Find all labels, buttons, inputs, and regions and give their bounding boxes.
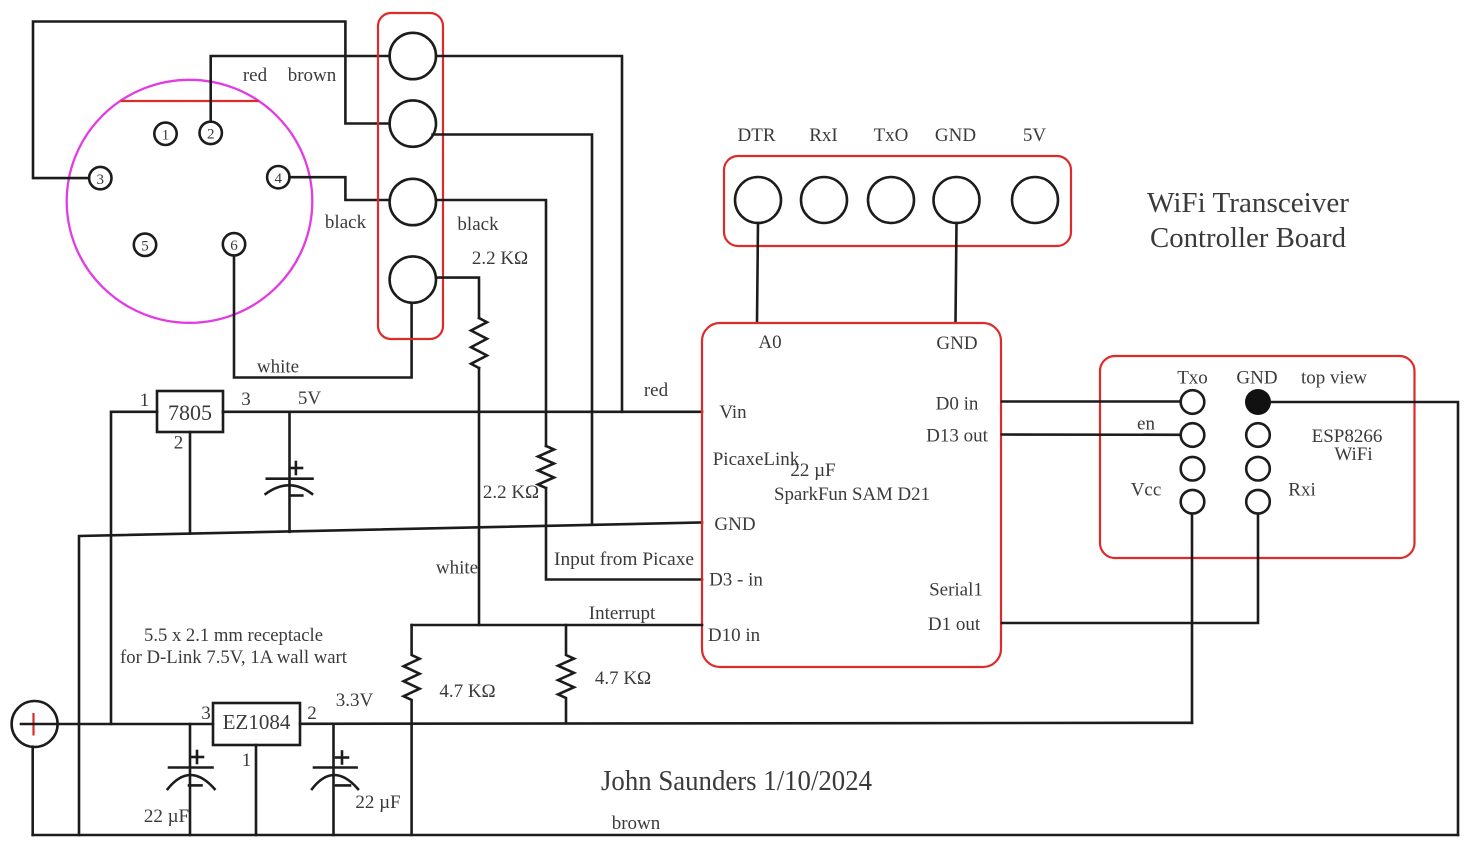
ESP8266 module U3 box [1100,356,1415,558]
svg-text:7805: 7805 [168,400,212,425]
capacitor C7 22uF output wire [332,724,335,835]
title WiFi Transceiver Controller Board [1147,187,1349,254]
DIN pin 1 [154,123,176,145]
connector J2 circle C4 [390,256,436,302]
wire interrupt line to D10 in [412,624,702,627]
capacitor C6 top plate [169,766,213,769]
svg-text:4.7 KΩ: 4.7 KΩ [439,681,495,702]
svg-text:3.3V: 3.3V [336,690,374,711]
svg-text:Serial1: Serial1 [929,580,983,601]
ESP pin Vcc [1181,490,1205,514]
svg-text:brown: brown [288,65,337,86]
capacitor C5 curved plate [266,485,313,494]
wire D13 out to en [1002,433,1181,436]
svg-text:WiFi: WiFi [1334,444,1372,465]
svg-text:Interrupt: Interrupt [589,603,656,624]
svg-text:GND: GND [936,333,977,354]
DIN pin 2 [200,122,222,144]
wire C1 to 5V rail [436,56,622,412]
capacitor C5 plus sign [290,462,302,474]
resistor R2 2.2 K zigzag [538,446,554,488]
capacitor C5 22uF on 5V rail wire [288,412,291,532]
resistor R3 4.7 K zigzag [404,625,420,835]
wire bottom ground rail [33,834,1458,837]
svg-text:2.2 KΩ: 2.2 KΩ [472,248,528,269]
capacitor C7 plus sign [336,752,348,764]
svg-text:D0 in: D0 in [936,394,979,415]
svg-text:GND: GND [1236,368,1277,389]
svg-text:Vcc: Vcc [1131,480,1162,501]
svg-text:5V: 5V [298,388,322,409]
svg-text:top view: top view [1301,368,1367,389]
svg-text:D1 out: D1 out [928,614,981,635]
connector J2 circle C1 [390,33,436,79]
svg-text:GND: GND [714,514,755,535]
svg-text:5: 5 [141,239,149,255]
wire receptacle to EZ1084 pin3 [21,723,213,726]
FTDI pin DTR [735,177,781,223]
ESP pin row2 right [1246,423,1270,447]
DIN pin 4 [267,166,289,188]
svg-text:for D-Link 7.5V, 1A wall wart: for D-Link 7.5V, 1A wall wart [120,647,348,668]
FTDI header J3 body [724,156,1071,246]
capacitor C7 minus sign [336,784,350,787]
svg-text:DTR: DTR [738,125,776,146]
svg-text:Vin: Vin [719,402,747,423]
wire header GND to SAM GND [956,223,957,322]
ESP pin en [1181,423,1205,447]
receptacle center pin red bar [32,713,34,736]
svg-text:1: 1 [242,750,252,771]
svg-text:black: black [457,214,499,235]
svg-text:D10 in: D10 in [708,625,761,646]
svg-text:4.7 KΩ: 4.7 KΩ [595,668,651,689]
svg-text:black: black [325,212,367,233]
connector J2 circle C3 [390,179,436,225]
svg-text:Txo: Txo [1177,368,1208,389]
wire 7805 pin2 to ground [189,432,192,534]
capacitor C6 plus sign [191,751,203,763]
svg-text:3: 3 [97,172,105,188]
wire 7805 input pin1 [111,412,157,724]
svg-text:red: red [243,65,268,86]
svg-text:GND: GND [935,125,976,146]
svg-text:RxI: RxI [809,125,838,146]
svg-text:4: 4 [275,171,283,187]
capacitor C5 top plate [267,477,313,480]
capacitor C6 22uF input wire [189,724,192,835]
connector J2 circle C2 [390,100,436,146]
regulator U4 EZ1084 box [213,703,300,745]
svg-text:Controller Board: Controller Board [1150,222,1346,254]
capacitor C6 minus sign [189,784,202,787]
wire DTR to A0 [757,223,758,322]
FTDI pin 5V [1012,177,1058,223]
FTDI pin RxI [801,177,847,223]
wire R2 to D3-in [546,488,702,580]
DIN pin 3 [89,167,111,189]
svg-text:red: red [644,380,669,401]
svg-text:1: 1 [140,390,150,411]
power receptacle symbol [12,701,58,747]
wire D1 out to Rxi [1002,514,1258,623]
svg-text:PicaxeLink: PicaxeLink [713,449,800,470]
svg-text:2: 2 [307,703,317,724]
svg-text:1: 1 [162,128,170,144]
svg-text:D13 out: D13 out [926,426,988,447]
svg-text:WiFi Transceiver: WiFi Transceiver [1147,187,1349,219]
wire D0 in to Txo [1002,400,1181,403]
svg-text:en: en [1137,414,1155,435]
svg-text:TxO: TxO [874,125,909,146]
ESP pin GND (filled) [1245,389,1271,415]
capacitor C7 top plate [314,766,357,769]
wire GND sloped line SAM GND to left rail [79,523,702,836]
wire DIN pin4 to connector circle C3 (black wire) [290,177,390,200]
DIN connector J1 circle [67,80,313,323]
DIN pin 6 [223,233,245,255]
svg-text:A0: A0 [758,332,781,353]
wire DIN pin3 to connector circle C2 [33,22,390,179]
ESP pin Rxi [1246,490,1270,514]
wire DIN pin6 white to connector circle C4 bottom [234,256,412,378]
svg-text:22 µF: 22 µF [355,792,400,813]
svg-text:white: white [257,357,299,378]
capacitor C6 curved plate [168,775,215,789]
capacitor C5 minus sign [290,494,302,497]
wire C3 toward resistor R2 [436,200,546,446]
wire Vcc to 3.3V rail [1191,514,1194,723]
svg-text:2: 2 [207,127,215,143]
svg-text:22 µF: 22 µF [144,806,189,827]
svg-text:EZ1084: EZ1084 [223,710,291,734]
svg-text:John Saunders 1/10/2024: John Saunders 1/10/2024 [601,766,872,797]
svg-text:3: 3 [241,389,251,410]
svg-text:22 µF: 22 µF [790,460,835,481]
svg-text:2: 2 [174,433,184,454]
FTDI pin GND [934,177,980,223]
wire C2 to GND line [433,135,592,525]
connector J2 body (4-pin) [378,13,443,339]
svg-text:2.2 KΩ: 2.2 KΩ [483,482,539,503]
regulator U2 7805 box [157,391,223,432]
svg-text:SparkFun SAM D21: SparkFun SAM D21 [774,484,930,505]
svg-text:white: white [436,558,478,579]
ESP pin row3 right [1246,457,1270,481]
capacitor C7 curved plate [312,775,358,789]
wire receptacle shell to bottom rail [31,747,34,835]
resistor R1 2.2 K zigzag [471,318,487,368]
svg-text:Input from Picaxe: Input from Picaxe [554,549,694,570]
DIN keyway red mark [121,100,259,102]
FTDI pin TxO [868,177,914,223]
svg-text:6: 6 [230,238,238,254]
ESP pin row3 left [1181,457,1205,481]
wire R1 white net down to interrupt line [478,368,481,625]
ESP pin Txo [1181,390,1205,414]
svg-text:brown: brown [612,813,661,834]
wire C4 toward resistor R1 [436,278,479,318]
wire 3.3V rail [300,723,1192,724]
svg-text:5.5 x 2.1 mm receptacle: 5.5 x 2.1 mm receptacle [144,625,323,646]
wire EZ1084 pin1 to ground [255,745,258,835]
wire 5V rail 7805 pin3 to SAM Vin [223,410,702,413]
module U1 SparkFun SAM D21 box [702,323,1001,667]
svg-text:5V: 5V [1023,125,1047,146]
svg-text:Rxi: Rxi [1288,480,1315,501]
wire DIN pin2 to connector circle C1 (red wire) [211,56,390,122]
resistor R4 4.7 K zigzag [558,625,574,723]
svg-text:D3 - in: D3 - in [709,570,763,591]
DIN pin 5 [134,234,156,256]
wire ESP GND to right rail [1271,402,1458,835]
svg-text:3: 3 [201,703,211,724]
